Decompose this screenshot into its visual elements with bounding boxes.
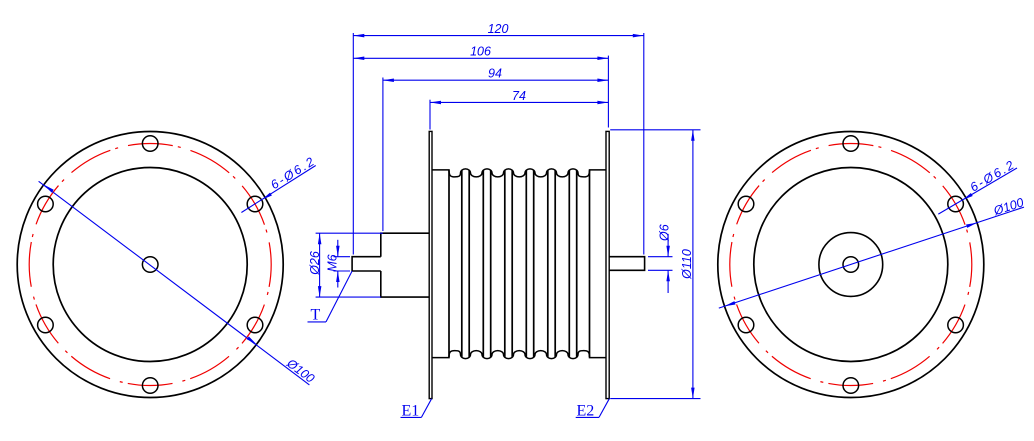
right view bolt hole 2 [948,196,964,212]
right view 6-D6.2 leader arrow [962,193,972,200]
extension line right stub end (120) [643,33,645,255]
right view D100 arrow upper-right [966,223,977,228]
dimension 74 [430,101,608,103]
dimension 94 [383,79,609,81]
right view bolt hole 6 [738,196,754,212]
right view bolt circle D100 centerline [730,144,972,386]
left view D100 arrow upper-left [44,185,54,193]
left view bolt hole 5 [38,317,54,333]
M6 dimension lines [337,240,339,257]
right view bolt hole 5 [738,317,754,333]
extension line boss left (94) [382,78,384,232]
right view bolt hole 1 [843,136,859,152]
body corrugated top edge [432,169,606,177]
left view bolt circle D100 centerline [29,144,271,386]
left shaft stub M6 outline [352,257,381,271]
left view bolt hole 3 [247,317,263,333]
body rib lines [448,170,450,357]
extension line right flange (106/94/74) [607,56,609,128]
dimension 106 [353,57,608,59]
D26 extension line bottom [316,296,381,298]
T leader line [326,271,352,322]
svg-text:120: 120 [488,22,509,36]
D26 extension line top [316,232,383,234]
left view D100 dimension line [39,181,310,385]
right view 6-D6.2 leader line [938,168,1017,214]
extension line left of stub (120/106) [352,33,354,255]
right flange side outline [606,131,609,398]
right view inner circle [754,168,948,362]
svg-text:Ø110: Ø110 [680,249,694,280]
left view center hole [142,257,158,273]
D6 extension line bottom [648,269,673,271]
svg-text:Ø6: Ø6 [658,224,672,242]
E2 label underline [576,416,599,418]
E1 label underline [401,416,422,418]
left view bolt hole 2 [247,196,263,212]
svg-text:Ø26: Ø26 [308,251,322,276]
extension line left flange (74) [429,100,431,130]
svg-text:T: T [311,307,321,324]
T label underline [308,321,327,323]
E2 leader line [599,399,609,418]
D110 extension line bottom [610,398,700,400]
right view boss circle D26 [819,233,883,297]
svg-text:6-Ø6.2: 6-Ø6.2 [268,154,318,192]
svg-text:Ø100: Ø100 [991,195,1025,218]
left view inner circle [53,168,247,362]
right view bolt hole 4 [843,378,859,394]
right view center hole [843,257,859,273]
D6 extension line top [648,256,673,258]
left view 6-D6.2 leader line [241,166,315,213]
M6 extension line top [334,256,351,258]
svg-text:106: 106 [470,45,491,59]
body corrugated bottom edge [432,351,606,359]
left view bolt hole 1 [142,136,158,152]
right view D100 arrow lower-left [725,301,736,306]
right view outer circle D110 [718,132,984,398]
svg-text:M6: M6 [325,254,339,271]
left view bolt hole 4 [142,378,158,394]
right view D100 dimension line [719,207,1024,308]
left view bolt hole 6 [38,196,54,212]
right shaft stub D6 outline [609,257,644,271]
D110 extension line top [610,129,700,131]
left boss D26 outline [381,233,429,297]
left view 6-D6.2 leader arrow [262,193,272,200]
right view bolt hole 3 [948,317,964,333]
D6 dimension lines [667,234,669,257]
svg-text:Ø100: Ø100 [283,356,317,386]
D26 dimension line [319,233,321,297]
svg-text:94: 94 [488,67,502,81]
svg-text:6-Ø6.2: 6-Ø6.2 [968,157,1018,194]
D110 dimension line [692,130,694,399]
E1 leader line [421,399,431,418]
svg-text:74: 74 [512,89,526,103]
left view outer circle D110 [17,132,283,398]
M6 extension line bottom [334,270,351,272]
left flange side outline [429,131,432,398]
dimension 120 [353,35,644,37]
left view D100 arrow lower-right [247,336,257,344]
